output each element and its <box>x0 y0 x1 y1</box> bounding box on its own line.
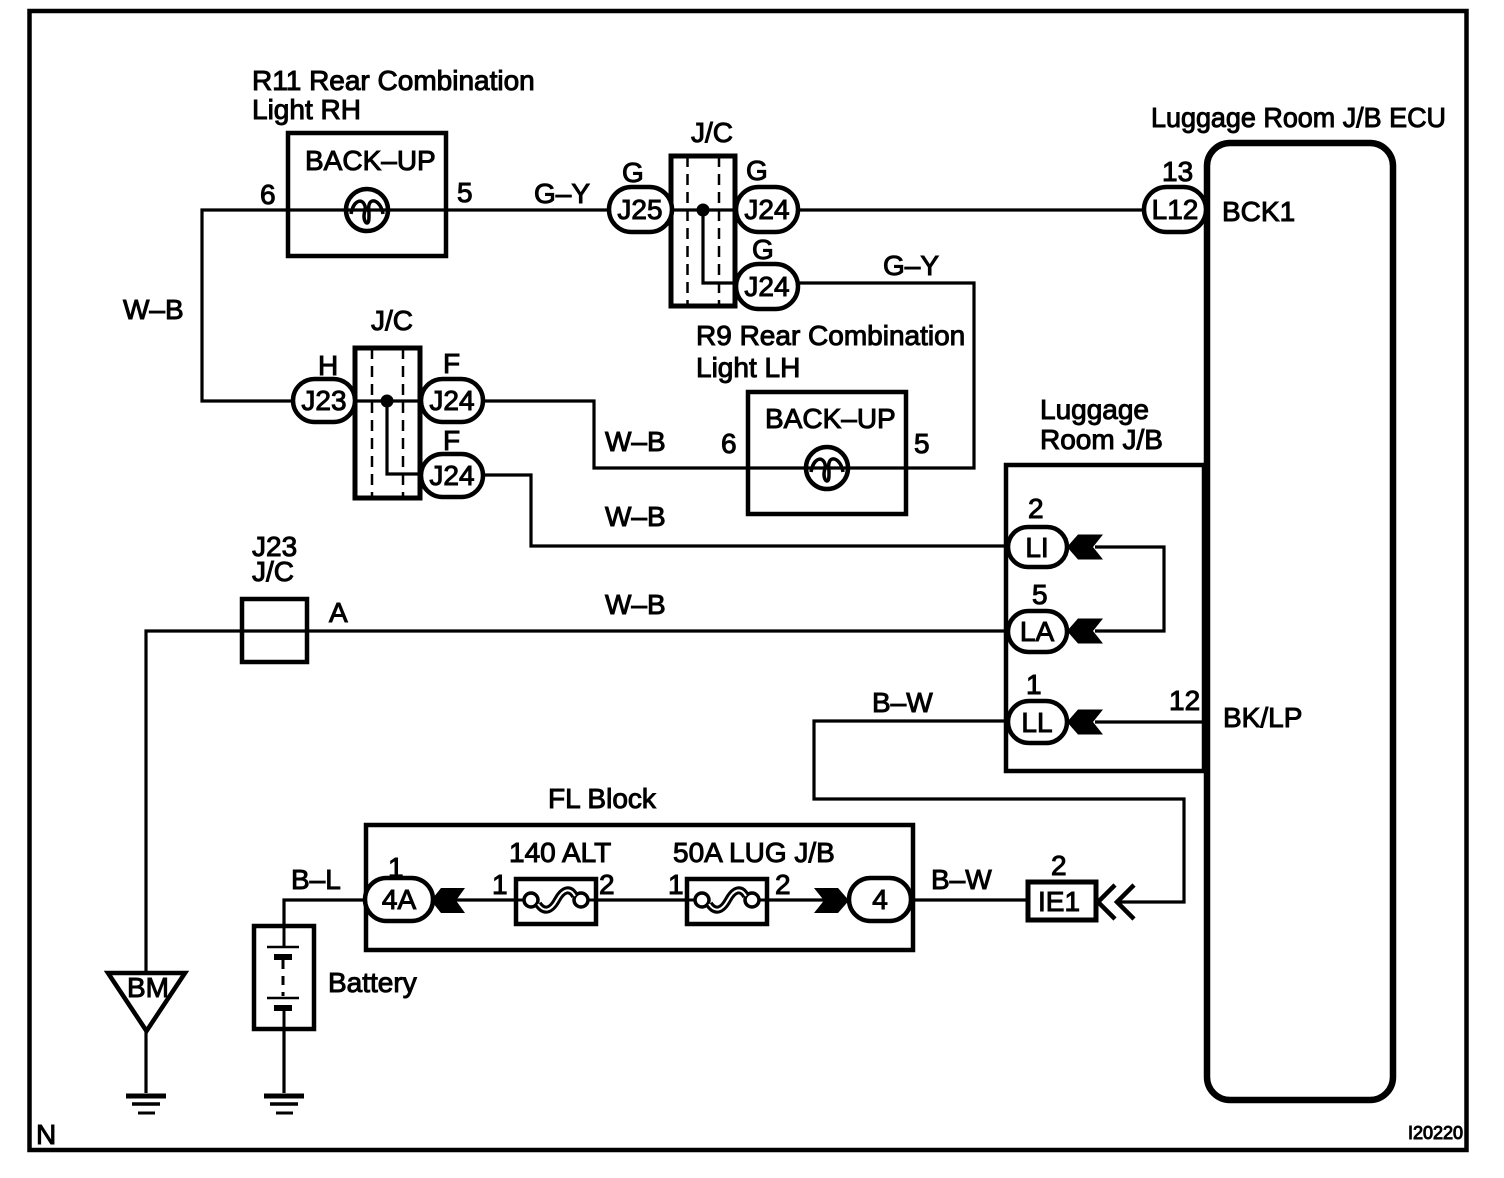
svg-text:J24: J24 <box>744 271 789 302</box>
svg-text:B–W: B–W <box>872 687 933 718</box>
svg-text:B–L: B–L <box>291 864 341 895</box>
svg-text:F: F <box>443 425 460 456</box>
svg-text:Luggage: Luggage <box>1040 394 1149 425</box>
svg-text:I20220: I20220 <box>1408 1123 1463 1143</box>
svg-text:BACK–UP: BACK–UP <box>765 403 896 434</box>
svg-text:J24: J24 <box>429 385 474 416</box>
svg-text:50A LUG J/B: 50A LUG J/B <box>673 837 835 868</box>
svg-text:BK/LP: BK/LP <box>1223 702 1302 733</box>
svg-text:L12: L12 <box>1152 194 1199 225</box>
svg-text:W–B: W–B <box>605 589 666 620</box>
svg-text:J24: J24 <box>744 194 789 225</box>
svg-text:FL Block: FL Block <box>548 783 657 814</box>
svg-text:H: H <box>318 350 338 381</box>
svg-text:J25: J25 <box>617 194 662 225</box>
svg-text:J/C: J/C <box>371 305 413 336</box>
svg-text:W–B: W–B <box>605 501 666 532</box>
svg-text:1: 1 <box>668 869 684 900</box>
svg-text:5: 5 <box>1032 579 1048 610</box>
svg-text:IE1: IE1 <box>1038 886 1080 917</box>
svg-text:Luggage Room J/B ECU: Luggage Room J/B ECU <box>1151 102 1446 133</box>
svg-text:B–W: B–W <box>931 864 992 895</box>
svg-text:6: 6 <box>721 428 737 459</box>
svg-text:2: 2 <box>599 869 615 900</box>
svg-text:LL: LL <box>1021 707 1052 738</box>
svg-text:5: 5 <box>457 177 473 208</box>
svg-text:J24: J24 <box>429 460 474 491</box>
svg-text:Battery: Battery <box>328 967 417 998</box>
svg-text:R11 Rear Combination: R11 Rear Combination <box>252 65 535 96</box>
svg-text:LA: LA <box>1020 616 1055 647</box>
svg-text:BACK–UP: BACK–UP <box>305 145 436 176</box>
svg-text:J/C: J/C <box>252 556 294 587</box>
svg-text:G–Y: G–Y <box>534 178 590 209</box>
svg-text:13: 13 <box>1162 156 1193 187</box>
svg-text:140 ALT: 140 ALT <box>509 837 611 868</box>
svg-text:F: F <box>443 348 460 379</box>
svg-text:1: 1 <box>492 869 508 900</box>
svg-text:12: 12 <box>1169 685 1200 716</box>
svg-text:J23: J23 <box>301 385 346 416</box>
svg-text:BCK1: BCK1 <box>1222 196 1295 227</box>
svg-text:LI: LI <box>1025 532 1048 563</box>
svg-text:1: 1 <box>388 852 404 883</box>
svg-text:W–B: W–B <box>605 426 666 457</box>
svg-text:G: G <box>622 157 644 188</box>
svg-text:BM: BM <box>127 972 169 1003</box>
svg-text:Light LH: Light LH <box>696 352 800 383</box>
svg-text:G: G <box>752 234 774 265</box>
svg-text:A: A <box>329 597 348 628</box>
svg-text:2: 2 <box>1028 493 1044 524</box>
svg-text:N: N <box>36 1119 56 1150</box>
svg-text:Light RH: Light RH <box>252 94 361 125</box>
svg-text:W–B: W–B <box>123 294 184 325</box>
svg-text:4: 4 <box>872 884 888 915</box>
svg-text:4A: 4A <box>382 884 417 915</box>
svg-text:6: 6 <box>260 179 276 210</box>
svg-text:R9 Rear Combination: R9 Rear Combination <box>696 320 965 351</box>
svg-text:5: 5 <box>914 428 930 459</box>
svg-text:Room J/B: Room J/B <box>1040 424 1163 455</box>
svg-text:2: 2 <box>1051 850 1067 881</box>
svg-text:G: G <box>746 155 768 186</box>
svg-text:1: 1 <box>1026 669 1042 700</box>
svg-text:G–Y: G–Y <box>883 250 939 281</box>
svg-text:2: 2 <box>775 869 791 900</box>
svg-text:J/C: J/C <box>691 117 733 148</box>
